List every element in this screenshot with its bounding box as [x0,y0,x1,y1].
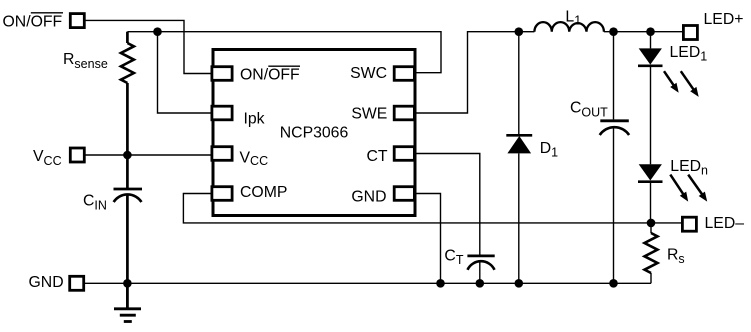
capacitor COUT [600,121,629,283]
terminal GND [70,276,84,290]
pin SWC (pin box right 1) [394,67,414,81]
wire rail to inductor [519,31,535,33]
inductor L1 [534,22,604,32]
svg-text:CT: CT [366,148,387,165]
svg-text:Rs: Rs [667,247,685,267]
svg-text:CIN: CIN [83,192,107,212]
wire inductor to LED+ terminal [604,31,682,33]
wire VCC terminal to VCC pin [86,154,212,156]
svg-text:SWC: SWC [350,65,387,82]
label GND terminal [29,274,64,291]
terminal VCC [70,148,84,162]
svg-text:D1: D1 [540,140,558,160]
label pin ON/OFF [240,66,300,83]
label D1 [540,140,558,160]
svg-text:VCC: VCC [33,148,62,168]
wire diode D1 anode to ground bus [518,153,520,283]
label NCP3066 [280,125,349,142]
label pin CT [366,148,387,165]
pin ON/OFF (pin box left 1) [212,67,232,81]
label Rs [667,247,685,267]
wire diode D1 cathode [518,32,520,135]
LEDn light arrows [670,175,707,202]
label pin VCC [240,149,269,168]
node COUT ground [609,279,618,288]
IC U1 NCP3066 body [213,50,415,216]
node output rail LED string [646,27,655,36]
ground [114,283,141,321]
wire LED string top [650,32,652,49]
wire COUT top [613,32,615,120]
LED LEDn [638,164,663,181]
svg-text:NCP3066: NCP3066 [280,125,349,142]
label pin GND [351,189,386,206]
svg-text:GND: GND [351,189,386,206]
label VCC terminal [33,148,62,168]
wire node to Ipk pin [158,32,212,113]
svg-text:ON/OFF: ON/OFF [3,13,63,30]
svg-text:LED1: LED1 [670,44,708,64]
pin VCC (pin box left 3) [212,147,232,161]
diode D1 [506,135,532,153]
resistor Rs [645,223,658,283]
node output rail COUT [609,27,618,36]
svg-text:GND: GND [29,274,64,291]
svg-text:Rsense: Rsense [63,51,108,71]
node CT ground [476,279,485,288]
label LEDn [670,158,708,178]
terminal LED- [682,217,696,231]
svg-text:LED–: LED– [705,215,745,232]
label L1 [565,9,581,28]
wire COMP to LED- terminal [183,194,681,223]
wire ON/OFF terminal to ON/OFF pin [86,20,212,73]
wire GND pin to ground bus [417,194,441,284]
label ON/OFF terminal [3,13,64,31]
node GND pin bus [436,279,445,288]
capacitor CT [467,256,494,283]
label LED- [705,215,745,232]
wire SWE pin up to switch node rail [417,32,519,113]
svg-text:LED+: LED+ [704,11,744,28]
svg-text:CT: CT [444,247,463,267]
svg-text:ON/OFF: ON/OFF [240,67,300,84]
LED LED1 [638,48,663,65]
wire CT pin down [417,154,480,256]
svg-text:SWE: SWE [351,105,387,122]
pin CT (pin box right 3) [394,147,414,161]
pin Ipk (pin box left 2) [212,106,232,120]
LED1 light arrows [664,71,699,97]
svg-text:Ipk: Ipk [244,110,265,127]
wire LED1 to LEDn [650,66,652,165]
svg-text:COUT: COUT [570,100,608,120]
label pin SWE [351,105,387,122]
wire ground bus [85,282,651,284]
label LED+ [704,11,744,28]
node switch rail left [515,27,524,36]
terminal ON/OFF [70,14,84,28]
label pin SWC [350,65,387,82]
label pin Ipk [244,110,265,127]
svg-text:L1: L1 [565,9,581,28]
terminal LED+ [683,26,697,40]
node VCC junction [123,151,132,160]
svg-text:COMP: COMP [240,184,287,201]
label pin COMP [240,184,287,201]
node Ipk rail junction [153,27,162,36]
node D1 ground [515,279,524,288]
pin GND (pin box right 4) [394,187,414,201]
label COUT [570,100,608,120]
pin SWE (pin box right 2) [394,106,414,120]
label Rsense [63,51,108,71]
label CIN [83,192,107,212]
capacitor CIN [114,155,143,283]
label LED1 [670,44,708,64]
wire LEDn to LED- node [650,182,652,223]
resistor Rsense [121,32,134,155]
label CT [444,247,463,267]
pin COMP (pin box left 4) [212,187,232,201]
node LED- junction [647,219,656,228]
node GND junction [123,279,132,288]
wire Rsense top rail to SWC pin [127,32,441,73]
